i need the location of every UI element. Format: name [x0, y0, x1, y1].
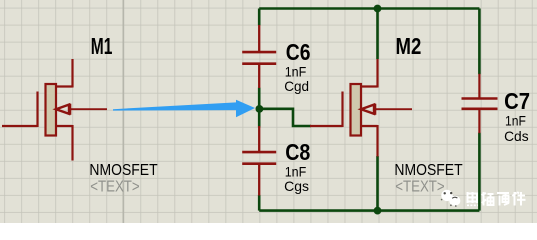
char ying — [497, 193, 509, 206]
wire C6 bottom to node — [258, 88, 261, 109]
svg-text:M2: M2 — [396, 33, 422, 59]
capacitor C6 — [242, 25, 276, 88]
svg-text:C7: C7 — [504, 88, 530, 114]
wire node to C8 — [258, 109, 261, 128]
wire M2 drain top — [376, 9, 379, 60]
wire C7 top — [478, 9, 481, 75]
capacitor C7 — [462, 74, 498, 133]
svg-text:C8: C8 — [285, 139, 310, 165]
wire bottom rail — [259, 209, 479, 212]
char mao — [482, 192, 494, 206]
svg-text:1nF: 1nF — [505, 114, 526, 129]
node junction dot bottom — [374, 207, 382, 215]
svg-text:NMOSFET: NMOSFET — [89, 162, 157, 179]
node junction dot center — [256, 105, 264, 113]
svg-text:Cgd: Cgd — [284, 79, 309, 94]
char jian — [512, 192, 525, 206]
svg-text:M1: M1 — [91, 33, 113, 59]
svg-text:<TEXT>: <TEXT> — [90, 178, 140, 195]
wire left vertical (top wire to C6) — [258, 9, 261, 26]
watermark text 熊猫硬件 — [467, 192, 526, 206]
svg-text:C6: C6 — [286, 39, 311, 65]
wire C8 bottom to bottom rail — [258, 195, 261, 211]
watermark panda logo — [441, 190, 460, 207]
capacitor C8 — [242, 126, 276, 196]
transistor M2 gate pin lead — [310, 125, 342, 127]
blue annotation arrow — [113, 100, 255, 117]
wire top horizontal — [259, 7, 479, 10]
wire M2 source bottom — [376, 156, 379, 211]
svg-text:NMOSFET: NMOSFET — [394, 162, 462, 179]
major grid lines — [122, 0, 124, 223]
svg-text:1nF: 1nF — [285, 164, 307, 179]
transistor M2 — [310, 59, 412, 157]
svg-text:1nF: 1nF — [285, 64, 307, 79]
svg-text:Cgs: Cgs — [284, 179, 309, 194]
char xiong — [467, 192, 479, 205]
transistor M1 — [2, 59, 107, 161]
svg-text:<TEXT>: <TEXT> — [395, 178, 445, 195]
wire node to M2 gate jog — [259, 109, 311, 126]
svg-text:Cds: Cds — [504, 129, 529, 144]
node junction dot top — [374, 5, 382, 13]
wire C7 bottom — [478, 133, 481, 211]
